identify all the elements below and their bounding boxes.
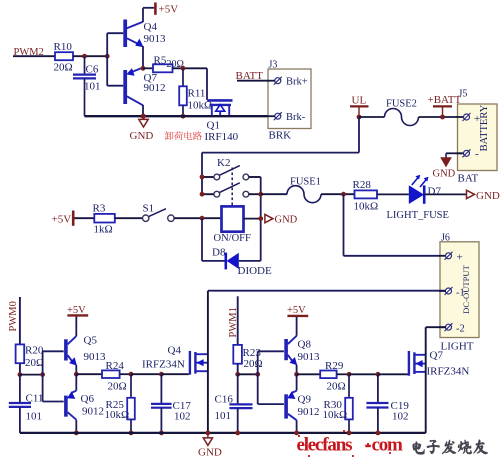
svg-text:LIGHT_FUSE: LIGHT_FUSE [387, 210, 449, 221]
fuse FUSE2 [385, 99, 419, 126]
junction R30 bottom [347, 431, 352, 436]
transistor Q5 [66, 315, 106, 374]
transistor Q4 [125, 8, 166, 69]
logo elecfans.com [297, 435, 404, 456]
svg-text:FUSE1: FUSE1 [290, 177, 321, 188]
junction base tap [105, 54, 110, 59]
transistor Q9 [286, 374, 319, 433]
ground (battery minus) [433, 158, 456, 180]
capacitor C17 [151, 374, 191, 433]
junction Q7 collector [141, 114, 146, 119]
svg-text:GND: GND [275, 215, 298, 226]
resistor R3 [74, 203, 114, 236]
fuse FUSE1 [287, 177, 321, 203]
svg-text:UL: UL [352, 95, 367, 107]
wire UL to FUSE2 [359, 116, 385, 118]
wire FUSE2 to J5 [419, 116, 463, 118]
svg-text:IRF140: IRF140 [205, 131, 239, 143]
junction coil left [200, 216, 205, 221]
junction K2 left top [200, 175, 205, 180]
wire R23 to bases [238, 373, 258, 375]
svg-text:Q4: Q4 [144, 21, 158, 33]
svg-text:R10: R10 [54, 41, 73, 53]
svg-text:101: 101 [215, 410, 232, 422]
logo 电子发烧友 [413, 440, 488, 455]
wire R28 to D7 [377, 193, 409, 195]
svg-text:R5: R5 [154, 55, 167, 67]
junction FUSE1 out [341, 192, 346, 197]
svg-text:+: + [457, 251, 463, 263]
capacitor C11 [9, 375, 44, 433]
svg-text:J3: J3 [269, 60, 278, 71]
junction Q4/Q7 emitters [141, 66, 146, 71]
svg-text:+BATT: +BATT [428, 94, 462, 106]
net label BATT [236, 70, 264, 82]
junction R23 bottom [235, 372, 240, 377]
junction base line 2 [255, 372, 260, 377]
junction Q6 collector [74, 431, 79, 436]
power +5V (Q5) [67, 305, 88, 316]
junction Q9 collector [294, 431, 299, 436]
junction C19 top [376, 372, 381, 377]
svg-text:D7: D7 [428, 186, 442, 198]
junction +BATT [440, 115, 445, 120]
svg-text:10kΩ: 10kΩ [354, 201, 379, 213]
svg-text:1kΩ: 1kΩ [94, 224, 113, 236]
svg-text:R20: R20 [25, 345, 44, 357]
relay K2 contacts [202, 153, 261, 205]
svg-text:-2: -2 [456, 324, 465, 335]
svg-text:102: 102 [392, 411, 409, 423]
svg-text:GND: GND [130, 130, 154, 142]
svg-text:Q8: Q8 [298, 339, 312, 351]
svg-text:BATTERY: BATTERY [479, 104, 490, 151]
svg-text:R29: R29 [325, 360, 344, 372]
mosfet Q4 [142, 345, 208, 375]
power +5V (Q8) [287, 305, 308, 316]
led D7 [409, 175, 442, 204]
wire base vertical [106, 33, 108, 85]
svg-text:Q4: Q4 [168, 345, 182, 357]
wire Q1 gate [206, 68, 208, 100]
ground (LED) [467, 190, 500, 202]
junction C17 top [159, 372, 164, 377]
svg-text:+5V: +5V [287, 305, 306, 316]
wire Q7 base stub [107, 85, 123, 87]
wire R20 to bases [20, 374, 43, 376]
ground (coil) [265, 214, 298, 225]
resistor R25 [105, 374, 135, 433]
power +5V (Q4) [155, 3, 178, 16]
wire D8 loop left [202, 218, 225, 261]
net label PWM2 [14, 47, 44, 58]
svg-text:Q9: Q9 [298, 394, 312, 406]
svg-text:Brk-: Brk- [286, 112, 306, 123]
transistor Q6 [66, 374, 104, 433]
resistor R23 [233, 345, 262, 374]
wire to J6 plus [344, 194, 447, 256]
svg-text:S1: S1 [143, 203, 155, 215]
wire PWM1 [237, 296, 239, 345]
switch S1 [143, 203, 175, 222]
svg-text:9013: 9013 [84, 351, 107, 363]
svg-text:Q7: Q7 [430, 350, 444, 362]
wire base vertical 1 [43, 351, 64, 401]
capacitor C19 [366, 374, 409, 433]
svg-text:+5V: +5V [52, 213, 72, 225]
diode D8 [212, 247, 272, 278]
capacitor C16 [215, 374, 253, 433]
junction C6 tap [82, 54, 87, 59]
junction C16 bottom [235, 431, 240, 436]
svg-text:DC-OUTPUT: DC-OUTPUT [461, 264, 471, 313]
power port UL [350, 95, 369, 118]
wire to Q4 gate [161, 373, 188, 375]
wire to Q7 gate [378, 373, 408, 375]
wire Q7 drain/source [425, 327, 427, 433]
svg-text:R24: R24 [106, 360, 125, 372]
svg-text:DIODE: DIODE [238, 265, 272, 277]
junction UL [357, 115, 362, 120]
power +5V (S1) [52, 211, 74, 226]
junction base line [40, 372, 45, 377]
resistor R28 [353, 179, 379, 213]
wire ground rail (brake) [85, 115, 269, 117]
svg-text:C16: C16 [215, 394, 234, 406]
resistor R5 [143, 55, 207, 73]
wire to C17 [131, 373, 161, 375]
junction R11 top [181, 66, 186, 71]
junction R25 bottom [129, 431, 134, 436]
junction rail center [206, 431, 211, 436]
junction Q5/Q6 emitters [74, 372, 79, 377]
resistor R29 [297, 360, 349, 393]
svg-text:BAT: BAT [458, 173, 479, 185]
connector J3 [267, 60, 311, 142]
resistor R30 [323, 374, 353, 433]
svg-text:BRK: BRK [269, 130, 292, 142]
resistor R11 [179, 68, 212, 116]
net label PWM0 [8, 301, 19, 331]
svg-text:Q1: Q1 [207, 120, 220, 132]
svg-text:9012: 9012 [298, 406, 320, 418]
svg-text:FUSE2: FUSE2 [386, 99, 417, 110]
svg-text:com: com [372, 435, 404, 456]
junction coil right [258, 216, 263, 221]
svg-text:R11: R11 [188, 88, 206, 100]
resistor R20 [16, 344, 45, 374]
svg-text:Q5: Q5 [84, 335, 98, 347]
svg-text:IRFZ34N: IRFZ34N [427, 366, 470, 378]
mosfet Q1 [205, 100, 239, 143]
svg-text:D8: D8 [212, 247, 226, 259]
annotation 卸荷电路 [165, 131, 202, 140]
wire R10 to bases [73, 55, 107, 57]
wire BATT to Brk+ [237, 80, 268, 82]
junction K2 right [258, 192, 263, 197]
ground (bottom rail) [198, 433, 222, 459]
svg-text:GND: GND [198, 447, 222, 459]
svg-text:C11: C11 [26, 393, 44, 405]
wire PWM0 [19, 297, 21, 344]
transistor Q7 [125, 68, 165, 117]
wire FUSE1 to R28 [321, 193, 355, 195]
svg-text:R3: R3 [93, 203, 106, 215]
logo red marks [298, 430, 391, 457]
junction R11 bottom [181, 114, 186, 119]
svg-text:10kΩ: 10kΩ [105, 409, 130, 421]
resistor R10 [54, 41, 74, 74]
svg-text:J6: J6 [441, 233, 450, 244]
svg-text:101: 101 [26, 411, 43, 423]
wire PWM2 input [13, 55, 55, 57]
svg-text:9013: 9013 [298, 351, 321, 363]
svg-text:LIGHT: LIGHT [441, 341, 474, 353]
svg-text:9013: 9013 [144, 33, 167, 45]
relay coil ON/OFF [214, 206, 252, 244]
mosfet Q7 (output) [409, 350, 469, 378]
resistor R24 [76, 360, 131, 393]
svg-text:20Ω: 20Ω [25, 357, 44, 369]
junction C19 bottom [376, 431, 381, 436]
connector J6 [439, 233, 479, 353]
svg-text:ON/OFF: ON/OFF [214, 233, 252, 244]
junction Q8/Q9 emitters [294, 372, 299, 377]
svg-text:20Ω: 20Ω [108, 381, 127, 393]
svg-text:9012: 9012 [82, 406, 104, 418]
transistor Q8 [286, 316, 320, 374]
wire D8 to right [239, 260, 261, 262]
svg-text:20Ω: 20Ω [54, 62, 73, 74]
wire K2 to FUSE1 [261, 193, 287, 195]
wire coil right [244, 218, 261, 220]
wire UL down to K2 [202, 117, 359, 153]
svg-text:20Ω: 20Ω [327, 381, 346, 393]
svg-text:R28: R28 [353, 179, 372, 191]
wire S1 to coil [174, 217, 221, 219]
svg-text:GND: GND [476, 190, 500, 202]
power port +BATT [428, 94, 462, 117]
junction R20 bottom [18, 372, 23, 377]
svg-text:elecfans: elecfans [297, 435, 353, 456]
wire J6 -2 [426, 326, 446, 328]
svg-text:GND: GND [433, 169, 456, 180]
svg-text:9012: 9012 [144, 82, 166, 94]
wire D7 to GND [425, 193, 466, 195]
svg-text:K2: K2 [217, 157, 230, 169]
svg-text:Brk+: Brk+ [286, 77, 308, 88]
wire bottom rail [20, 432, 426, 434]
wire K2 right vertical [260, 177, 262, 261]
svg-text:PWM0: PWM0 [8, 301, 19, 331]
net LIGHT_FUSE [387, 210, 449, 221]
junction C17 bottom [159, 431, 164, 436]
wire J5 minus [446, 153, 462, 157]
wire R3 to S1 [115, 217, 143, 219]
svg-text:101: 101 [84, 81, 101, 93]
wire Q4 drain up / source down [207, 291, 209, 433]
wire Q4 base stub [107, 32, 123, 34]
svg-text:Q6: Q6 [81, 393, 95, 405]
wire base vertical 2 [258, 351, 284, 404]
connector J5 [457, 89, 498, 185]
svg-text:20Ω: 20Ω [244, 358, 263, 370]
wire J6 -1 [208, 290, 446, 292]
junction R25 top [129, 372, 134, 377]
junction R30 top [347, 372, 352, 377]
wire to C19 [349, 373, 378, 375]
junction K2 left bottom [200, 192, 205, 197]
svg-text:+5V: +5V [159, 4, 179, 16]
svg-text:IRFZ34N: IRFZ34N [142, 359, 185, 371]
svg-text:C6: C6 [86, 64, 99, 76]
net label PWM1 [228, 307, 239, 337]
svg-text:10kΩ: 10kΩ [323, 409, 348, 421]
capacitor C6 [73, 56, 101, 116]
svg-text:102: 102 [174, 411, 191, 423]
ground (brake rail) [130, 114, 154, 142]
